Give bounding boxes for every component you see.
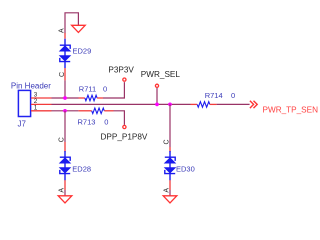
- svg-text:DPP_P1P8V: DPP_P1P8V: [101, 133, 148, 142]
- diode ED28 pin A red segment: [64, 180, 66, 190]
- resistor R713: [78, 108, 113, 114]
- svg-text:PWR_SEL: PWR_SEL: [141, 70, 181, 79]
- wire main (pin2) line: [52, 103, 191, 105]
- wire top-left L to power symbol: [65, 13, 78, 34]
- junction pin3/ED29: [63, 96, 67, 100]
- power symbol (arrow down) top: [72, 25, 86, 32]
- J7 pin 3: [31, 97, 52, 99]
- off-page connector chevrons: [250, 101, 257, 108]
- svg-text:A: A: [163, 188, 170, 193]
- resistor R714: [191, 102, 217, 108]
- wire pin3 to R711: [52, 97, 79, 99]
- diode ED29 pin C red segment: [64, 68, 66, 80]
- svg-text:C: C: [59, 72, 66, 77]
- wire ED30 to power symbol: [169, 190, 171, 196]
- connector J7 body: [18, 90, 30, 116]
- svg-text:C: C: [58, 137, 65, 142]
- diode ED30 pin A red segment: [169, 180, 171, 190]
- wire ED29 to pin3 line: [64, 80, 66, 98]
- diode ED29 pin A red segment: [64, 33, 66, 39]
- diode ED29: [60, 39, 70, 68]
- svg-text:ED29: ED29: [73, 47, 92, 56]
- junction pin1/ED28: [63, 109, 67, 113]
- svg-text:R711: R711: [79, 84, 96, 93]
- wire R714 to off-page: [217, 103, 250, 105]
- svg-text:P3P3V: P3P3V: [108, 66, 134, 75]
- diode ED30 pin C red segment: [169, 147, 171, 152]
- svg-text:PWR_TP_SEN: PWR_TP_SEN: [263, 105, 319, 114]
- wire R711 to P3P3V port: [103, 82, 124, 98]
- port PWR_SEL: [155, 84, 158, 87]
- svg-text:R714: R714: [205, 91, 223, 100]
- diode ED28: [60, 151, 70, 180]
- power symbol (arrow down) ED28: [58, 196, 72, 203]
- wire pin1 to R713: [52, 110, 79, 112]
- diode ED30: [165, 151, 175, 180]
- J7 pin 1: [31, 110, 52, 112]
- svg-text:A: A: [58, 28, 65, 33]
- port P3P3V: [123, 78, 126, 81]
- wire R713 to DPP port: [114, 111, 125, 125]
- wire ED28 to power symbol: [64, 190, 66, 196]
- svg-text:ED28: ED28: [72, 164, 91, 173]
- diode ED28 pin C red segment: [64, 142, 66, 152]
- svg-text:Pin Header: Pin Header: [11, 81, 51, 90]
- junction ED30: [168, 103, 172, 107]
- power symbol (arrow down) ED30: [163, 196, 177, 203]
- svg-text:C: C: [163, 139, 170, 144]
- svg-text:1: 1: [34, 105, 38, 112]
- svg-text:0: 0: [104, 118, 108, 127]
- svg-text:0: 0: [103, 84, 107, 93]
- junction PWR_SEL: [155, 103, 159, 107]
- resistor R711: [79, 95, 104, 101]
- svg-text:J7: J7: [18, 119, 27, 128]
- wire ED28 drop: [64, 111, 66, 142]
- svg-text:ED30: ED30: [176, 164, 195, 173]
- J7 pin 2: [31, 103, 52, 105]
- port DPP_P1P8V: [123, 125, 126, 128]
- wire ED30 drop: [169, 104, 171, 147]
- svg-text:A: A: [58, 188, 65, 193]
- wire PWR_SEL to main line: [156, 88, 158, 104]
- svg-text:0: 0: [231, 91, 235, 100]
- svg-text:R713: R713: [78, 118, 96, 127]
